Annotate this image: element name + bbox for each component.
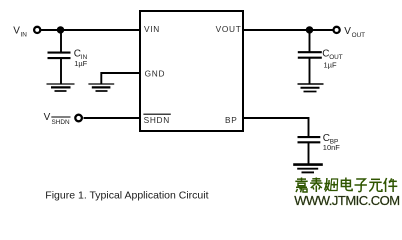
svg-text:VIN: VIN: [144, 24, 160, 34]
svg-text:SHDN: SHDN: [144, 115, 170, 125]
svg-text:1µF: 1µF: [324, 61, 337, 70]
svg-text:BP: BP: [225, 115, 237, 125]
svg-text:10nF: 10nF: [323, 143, 341, 152]
svg-text:SHDN: SHDN: [52, 119, 70, 126]
svg-text:OUT: OUT: [352, 32, 366, 39]
svg-text:1µF: 1µF: [74, 59, 87, 68]
svg-text:IN: IN: [21, 31, 28, 38]
svg-text:V: V: [344, 26, 351, 37]
svg-text:V: V: [13, 26, 20, 37]
svg-text:GND: GND: [145, 69, 166, 79]
svg-text:VOUT: VOUT: [216, 24, 242, 34]
svg-text:WWW.JTMIC.COM: WWW.JTMIC.COM: [294, 193, 399, 208]
svg-text:Figure 1. Typical Application: Figure 1. Typical Application Circuit: [45, 190, 208, 202]
svg-text:V: V: [44, 112, 51, 123]
